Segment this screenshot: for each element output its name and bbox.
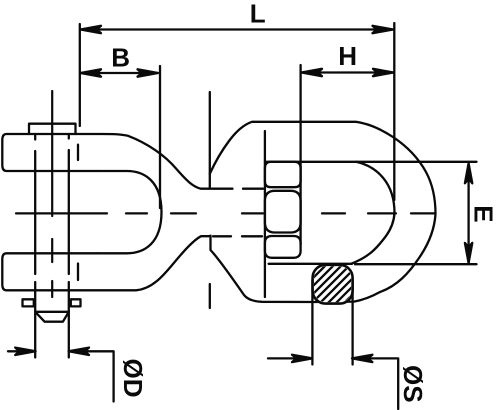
- dimension L right arrowhead: [373, 26, 394, 33]
- dimension H left arrowhead: [302, 69, 323, 76]
- svg-text:ØS: ØS: [398, 365, 428, 403]
- dimension H line: [302, 71, 393, 73]
- dimension OD line right part with leader: [70, 351, 114, 401]
- svg-text:E: E: [469, 205, 497, 222]
- svg-text:H: H: [338, 41, 357, 71]
- dimension OD right arrowhead: [69, 348, 89, 355]
- svg-text:B: B: [111, 42, 130, 72]
- spindle hidden edge bottom (dashes): [213, 235, 262, 237]
- dimension B line: [81, 72, 158, 74]
- svg-text:L: L: [250, 0, 266, 29]
- extension line OS left (stock left): [311, 280, 313, 365]
- dimension B left arrowhead: [81, 69, 102, 76]
- dimension B right arrowhead: [138, 69, 159, 76]
- hex collar nut bottom band: [265, 236, 301, 258]
- horizontal centerline (swivel axis, dash-dot): [16, 212, 435, 214]
- dimension OD line left part: [8, 350, 34, 352]
- dimension OS line left part: [268, 357, 311, 359]
- extension line left (L and B, jaw bearing face): [79, 24, 81, 126]
- extension line right (L and H, eye inner face): [393, 23, 395, 200]
- dimension L left arrowhead: [81, 26, 102, 33]
- extension line at swivel waist: [209, 92, 211, 174]
- pin head: [29, 124, 76, 134]
- cotter pin tab right: [71, 299, 81, 306]
- stock section circle OS (hatched rounded-square): [295, 226, 365, 384]
- dimension E top arrowhead: [465, 163, 472, 183]
- dimension L line: [81, 28, 393, 30]
- spindle hidden edge top (dashes): [212, 188, 264, 190]
- dimension OS left arrowhead: [292, 355, 312, 362]
- extension line waist lower stubs: [209, 284, 211, 308]
- swivel body lug (rounded end in jaw): [98, 171, 162, 253]
- hex collar nut top band: [265, 162, 301, 187]
- hex collar nut middle band: [265, 191, 301, 233]
- jaw bearing face hidden line (lower arm): [77, 264, 79, 281]
- extension line H left (collar face, continues as nut right edge): [299, 65, 301, 244]
- jaw lower arm: [2, 236, 210, 290]
- pin centerline (vertical): [51, 91, 53, 297]
- collar boss left face: [264, 131, 266, 297]
- jaw upper arm: [2, 134, 210, 189]
- eye inner edge right curve: [351, 162, 395, 264]
- dimension OS line right part with leader: [354, 358, 398, 409]
- eye inner edge bottom flat: [269, 263, 352, 265]
- extension line B right (lug end): [159, 66, 161, 208]
- dimension E bottom arrowhead: [465, 243, 472, 263]
- eye body outline: [210, 122, 436, 302]
- dimension OD left arrowhead: [15, 348, 35, 355]
- pin shank right edge (hidden/visible segments): [68, 134, 70, 358]
- E bottom extension line: [355, 263, 477, 265]
- pin bottom end chamfer: [35, 312, 69, 322]
- jaw bearing face hidden line (upper arm): [77, 145, 79, 160]
- eye inner edge top flat with E top extension line: [265, 161, 477, 163]
- dimension OS right arrowhead: [352, 355, 372, 362]
- dimension E line: [467, 164, 469, 263]
- svg-text:ØD: ØD: [118, 359, 148, 398]
- pin shank left edge (hidden/visible segments): [34, 134, 36, 358]
- dimension H right arrowhead: [373, 69, 394, 76]
- extension line OS right (stock right): [351, 280, 353, 365]
- cotter pin tab left: [23, 299, 34, 306]
